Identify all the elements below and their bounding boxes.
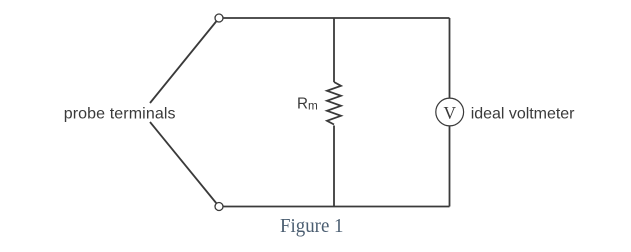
wire right vertical lower: [449, 126, 451, 207]
node probe terminal top: [215, 14, 223, 22]
wire bottom horizontal: [219, 206, 450, 208]
wire top horizontal: [219, 17, 450, 19]
svg-text:V: V: [444, 103, 457, 123]
wire probe upper diagonal: [150, 18, 219, 103]
wire probe lower diagonal: [150, 122, 219, 207]
svg-text:probe terminals: probe terminals: [64, 106, 176, 123]
svg-text:Figure 1: Figure 1: [280, 215, 344, 237]
node probe terminal bottom: [215, 203, 223, 211]
resistor Rm: [327, 82, 341, 125]
wire middle vertical upper: [333, 18, 335, 82]
wire right vertical upper: [449, 18, 451, 98]
voltmeter V1 body: [436, 98, 464, 126]
wire middle vertical lower: [333, 126, 335, 207]
svg-text:ideal voltmeter: ideal voltmeter: [471, 106, 575, 123]
svg-text:Rm: Rm: [297, 96, 318, 113]
